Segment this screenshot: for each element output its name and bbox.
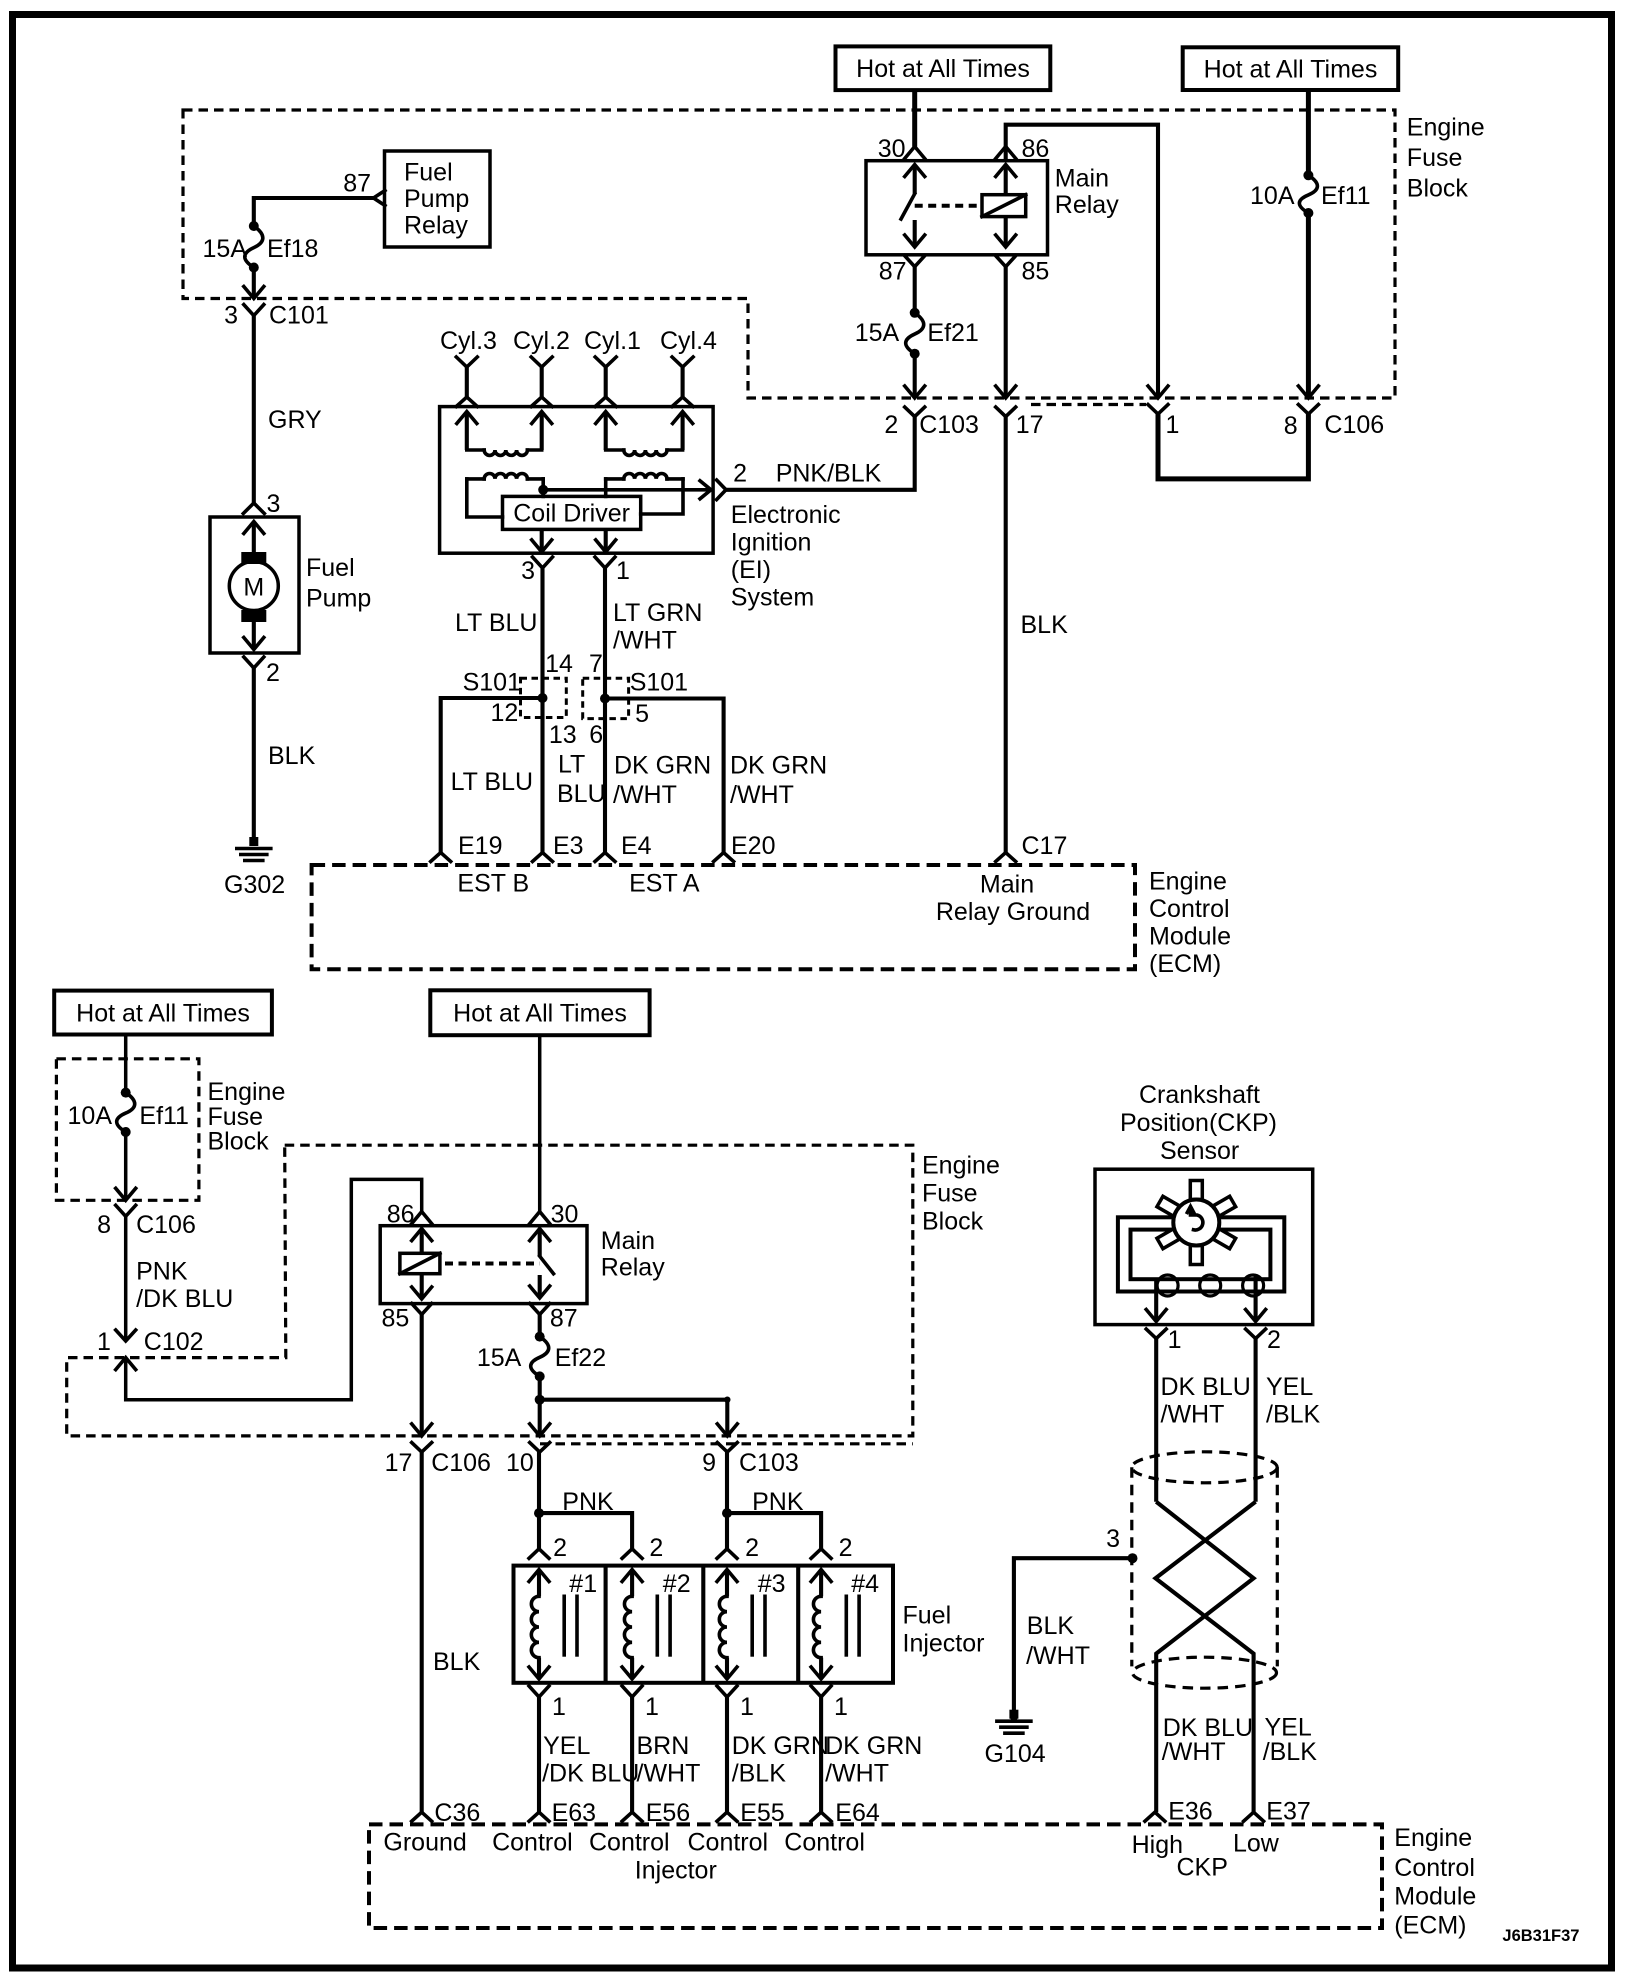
wire S101 to E4 [603,699,607,853]
wire 87 to fuse Ef21 [913,267,917,313]
svg-text:BLK: BLK [1021,611,1069,639]
svg-text:Engine: Engine [922,1152,1000,1180]
svg-text:15A: 15A [203,235,248,263]
pin 86b connector [412,1212,432,1224]
twisted pair wire A [1156,1502,1253,1812]
ECM dashed box (bottom) [369,1824,1382,1928]
svg-text:GRY: GRY [268,406,322,434]
fuse Ef22 15A [531,1337,549,1377]
svg-text:E64: E64 [835,1799,880,1827]
cyl connector at x=682.6 [672,357,693,367]
svg-text:3: 3 [224,302,238,330]
svg-text:13: 13 [549,721,577,749]
fuel pump pin 2 fork [244,657,264,668]
svg-text:(ECM): (ECM) [1394,1912,1466,1940]
svg-text:/BLK: /BLK [1263,1738,1318,1766]
svg-text:85: 85 [1022,258,1050,286]
coil secondary wire arrow x=682.6 [673,412,693,424]
svg-text:G302: G302 [224,871,285,899]
wire 10 to injector1 [537,1452,541,1549]
CKP pin 2 fork [1246,1329,1266,1339]
svg-text:YEL: YEL [1266,1373,1313,1401]
cyl connector at x=466.8 [456,357,477,367]
relay1 dashed link [915,204,982,208]
wire fuse to C101 [252,268,256,299]
relay1 coil box [982,195,1026,217]
svg-text:J6B31F37: J6B31F37 [1502,1927,1579,1945]
svg-text:/BLK: /BLK [732,1760,787,1788]
wire coil3 to S101 [540,568,544,698]
wire BLK 17 to C17 [1004,417,1008,853]
svg-text:10A: 10A [1250,182,1295,210]
fuel pump motor circle [229,562,278,611]
svg-text:System: System [731,584,814,612]
svg-text:(ECM): (ECM) [1149,950,1221,978]
svg-text:Ef11: Ef11 [139,1102,189,1130]
engine fuse block dashed box (small) [56,1059,199,1201]
svg-text:E55: E55 [740,1799,784,1827]
fuse Ef11 10A (lower) [117,1093,135,1132]
svg-text:2: 2 [553,1534,567,1562]
fuel pump brush bottom [241,610,266,622]
cyl connector at x=605.7 [595,357,616,367]
engine fuse block dashed box (lower big) [67,1145,913,1436]
svg-text:DK GRN: DK GRN [730,752,827,780]
connector C103-2 arrow [905,386,925,398]
fuse Ef18 15A [245,226,263,268]
wire BLK 17b to C36 [420,1452,424,1812]
svg-text:1: 1 [1166,411,1180,439]
svg-text:Engine: Engine [1407,114,1485,142]
wire C102 to relay2 pin86 [126,1179,422,1399]
svg-text:2: 2 [733,460,747,488]
svg-text:E19: E19 [458,832,502,860]
svg-text:S101: S101 [630,669,688,697]
junction dot coil driver feed [538,485,548,495]
svg-text:1: 1 [552,1693,566,1721]
primary winding right [606,477,624,481]
svg-text:2: 2 [649,1534,663,1562]
wire 9 to injector3 [725,1452,729,1549]
svg-text:5: 5 [635,700,649,728]
junction dot PNK left [534,1508,544,1518]
fuse Ef11 10A (top) [1299,175,1317,213]
svg-text:S101: S101 [463,669,521,697]
svg-text:Ef18: Ef18 [267,235,318,263]
fuel pump pin 3 connector [243,503,264,514]
svg-text:30: 30 [878,135,906,163]
svg-text:E3: E3 [553,832,584,860]
injector #2 internals [622,1570,642,1582]
connector C106-1 fork [1148,405,1168,415]
pin E20 [714,853,734,862]
svg-text:Electronic: Electronic [731,501,841,529]
relay2 dashed link [445,1262,540,1266]
svg-text:8: 8 [1284,412,1298,440]
primary winding left [467,477,484,481]
wire 86 up-over to C106-1 [1006,125,1158,398]
connector C101 fork [244,305,264,316]
svg-text:LT: LT [558,751,585,779]
svg-text:C106: C106 [431,1449,491,1477]
svg-text:87: 87 [879,258,907,286]
svg-text:C103: C103 [919,411,979,439]
svg-text:#1: #1 [569,1570,597,1598]
svg-text:LT GRN: LT GRN [613,599,702,627]
svg-text:Control: Control [589,1829,670,1857]
main relay box (top) [866,161,1048,255]
wire hot2 to fuse Ef11 [1306,90,1311,175]
fuel pump internal arrow down [252,622,256,650]
svg-text:87: 87 [343,170,371,198]
svg-text:/WHT: /WHT [637,1760,701,1788]
svg-text:2: 2 [1267,1326,1281,1354]
pin 30 connector [905,147,925,159]
fuel pump brush top [241,552,266,564]
branch to injector4 [727,1513,821,1549]
svg-text:Pump: Pump [404,185,469,213]
svg-text:3: 3 [521,557,535,585]
extra dashed segment near C106 pins [1031,403,1146,406]
svg-text:/DK BLU: /DK BLU [136,1285,233,1313]
connector C103-2 fork [905,407,925,417]
svg-text:E4: E4 [621,832,652,860]
extra dashed segment (lower) [540,1442,913,1445]
svg-text:1: 1 [97,1328,111,1356]
connector C103-17 arrow [996,386,1016,398]
svg-text:Engine: Engine [1149,868,1227,896]
coil secondary wire arrow x=541.7 [532,412,552,424]
wire relay87 to fuse Ef18 [254,198,374,226]
svg-text:Module: Module [1149,923,1231,951]
branch to injector2 [539,1513,632,1549]
connector C106-8b arrow [116,1188,136,1200]
svg-text:17: 17 [1016,411,1044,439]
coil secondary wire arrow x=605.7 [596,412,616,424]
svg-text:C17: C17 [1022,832,1068,860]
engine fuse block dashed box (top) [183,110,1395,398]
S101 splice box left [521,678,567,717]
injector pin 1 fork #1 [529,1686,549,1697]
svg-text:#3: #3 [758,1570,786,1598]
svg-text:E63: E63 [552,1799,596,1827]
svg-text:Relay: Relay [404,212,468,240]
svg-text:87: 87 [550,1305,578,1333]
svg-text:Crankshaft: Crankshaft [1139,1081,1260,1109]
wire junction to C103-9 [540,1400,728,1436]
wire Ef11 to C106-8 [1306,213,1311,398]
svg-text:E20: E20 [731,832,775,860]
wire fuse to C106-8b [124,1132,128,1200]
injector pin 2 connector #2 [622,1549,642,1559]
svg-text:G104: G104 [985,1740,1046,1768]
jumper loop C106 1 to 8 [1158,414,1308,479]
svg-text:/WHT: /WHT [1026,1642,1090,1670]
svg-text:Main: Main [1055,165,1109,193]
coil driver box [503,496,641,529]
injector #1 internals [529,1570,549,1582]
secondary winding right [606,448,624,452]
secondary winding left [467,448,484,452]
pin 87b fork [530,1304,550,1315]
wire Ef22 to junction [538,1376,542,1399]
svg-text:Pump: Pump [306,585,371,613]
svg-text:DK GRN: DK GRN [825,1732,922,1760]
svg-text:Relay: Relay [601,1254,665,1282]
svg-text:17: 17 [385,1449,413,1477]
svg-text:Engine: Engine [208,1078,286,1106]
relay1 coil wires [996,165,1016,177]
svg-text:Hot at All Times: Hot at All Times [1204,56,1378,84]
EI mate chevron [717,480,726,500]
hot at all times box 2 [1183,47,1399,90]
pin 87 fork [905,256,925,267]
ground G104 [1009,1710,1018,1719]
svg-text:C106: C106 [136,1211,196,1239]
connector C103-9 arrow [717,1424,737,1436]
svg-text:2: 2 [839,1534,853,1562]
wire 87b to fuse Ef22 [538,1315,542,1337]
twisted pair wire B [1156,1502,1256,1812]
svg-text:Cyl.4: Cyl.4 [660,327,717,355]
injector pin 2 connector #3 [717,1549,737,1559]
svg-text:DK GRN: DK GRN [732,1732,829,1760]
coil pin 3 fork [533,557,553,568]
connector C106-10 fork [530,1443,550,1453]
connector C106-8 arrow [1298,386,1318,398]
svg-text:Ground: Ground [383,1829,466,1857]
pin E55 [717,1812,737,1821]
fuse Ef21 15A [906,313,924,354]
svg-text:EST A: EST A [629,870,700,898]
svg-text:2: 2 [745,1534,759,1562]
svg-text:1: 1 [834,1693,848,1721]
svg-text:(EI): (EI) [731,556,771,584]
injector pin 2 connector #1 [529,1549,549,1559]
connector C102 arrow [116,1358,136,1370]
relay2 coil wires [412,1229,432,1241]
svg-text:3: 3 [267,490,281,518]
pin C36 [412,1812,432,1821]
injector pin 1 fork #2 [622,1686,642,1697]
svg-text:Fuse: Fuse [1407,144,1463,172]
svg-text:Coil Driver: Coil Driver [513,500,630,528]
wire S101 to E3 [540,698,544,853]
svg-text:Injector: Injector [903,1630,985,1658]
pin E19 [431,853,451,862]
connector C103-17 fork [996,407,1016,417]
svg-text:1: 1 [616,557,630,585]
pin E56 [622,1812,642,1821]
svg-text:Fuel: Fuel [306,554,355,582]
wire S101 to E19 [441,698,543,853]
svg-text:9: 9 [702,1449,716,1477]
svg-text:EST B: EST B [457,870,529,898]
cyl connector at x=541.7 [531,357,552,367]
coil pin 1 fork [595,557,615,568]
fuel pump box [210,517,299,653]
fuel pump relay box [385,151,491,247]
junction dot Ef22 [535,1395,545,1405]
pin 86 connector [996,147,1016,159]
pin E63 [529,1812,549,1821]
relay2 coil box [400,1253,440,1273]
wire PNK/DK BLU [124,1216,128,1341]
svg-text:LT BLU: LT BLU [451,768,533,796]
svg-text:BLK: BLK [268,742,316,770]
wire BLK to G302 [252,668,256,845]
junction dot PNK right [722,1508,732,1518]
svg-text:Ef22: Ef22 [555,1344,606,1372]
ground G302 [249,837,258,846]
svg-text:Control: Control [688,1829,769,1857]
pin E4 [595,853,615,862]
svg-text:Cyl.2: Cyl.2 [513,327,570,355]
svg-text:M: M [243,574,264,602]
svg-text:/DK BLU: /DK BLU [542,1760,639,1788]
svg-text:1: 1 [740,1693,754,1721]
connector C106-8 fork [1298,405,1318,415]
CKP inner rect [1131,1230,1271,1280]
svg-text:Control: Control [1149,895,1230,923]
svg-text:Ef11: Ef11 [1321,182,1371,210]
svg-text:Control: Control [1394,1854,1475,1882]
svg-text:3: 3 [1106,1525,1120,1553]
chevron at fuel pump relay pin 87 [374,191,386,206]
svg-text:Control: Control [784,1829,865,1857]
svg-text:Main: Main [980,871,1034,899]
svg-text:Sensor: Sensor [1160,1137,1239,1165]
svg-text:Block: Block [922,1208,984,1236]
connector C101 arrow [244,287,264,299]
wire 85b to C106-17 [420,1315,424,1436]
svg-text:Main: Main [601,1227,655,1255]
svg-text:#4: #4 [851,1570,879,1598]
relay2 switch arm [530,1229,550,1241]
svg-text:Cyl.3: Cyl.3 [440,327,497,355]
svg-text:C102: C102 [144,1328,204,1356]
pin E36 [1145,1812,1165,1821]
svg-text:/WHT: /WHT [825,1760,889,1788]
svg-text:/BLK: /BLK [1266,1401,1321,1429]
pin C17 [996,853,1016,862]
svg-text:15A: 15A [477,1344,522,1372]
svg-text:/WHT: /WHT [1161,1401,1225,1429]
svg-text:Cyl.1: Cyl.1 [584,327,641,355]
coil driver outputs [540,529,544,552]
svg-text:LT BLU: LT BLU [455,609,537,637]
svg-text:C36: C36 [434,1799,480,1827]
svg-text:10A: 10A [68,1102,113,1130]
svg-text:DK BLU: DK BLU [1161,1373,1251,1401]
svg-text:Relay Ground: Relay Ground [936,898,1090,926]
svg-text:Hot at All Times: Hot at All Times [453,1000,627,1028]
svg-text:Relay: Relay [1055,191,1119,219]
svg-text:Hot at All Times: Hot at All Times [856,55,1030,83]
connector C103-9 fork [717,1443,737,1453]
connector C106-10 arrow [530,1424,550,1436]
pin E64 [811,1812,831,1821]
svg-text:/WHT: /WHT [613,627,677,655]
svg-text:14: 14 [545,650,573,678]
junction dot S101 left [538,693,548,703]
relay1 switch arm [905,165,925,177]
CKP output wires [1154,1279,1158,1322]
svg-text:BLK: BLK [1027,1612,1075,1640]
injector #4 internals [811,1570,831,1582]
svg-text:Ef21: Ef21 [927,319,978,347]
svg-text:86: 86 [1022,135,1050,163]
svg-text:Control: Control [492,1829,573,1857]
svg-text:2: 2 [266,659,280,687]
hot at all times box 3 [54,991,272,1035]
svg-text:Block: Block [208,1128,270,1156]
svg-text:Fuse: Fuse [922,1180,978,1208]
connector C106-8b fork [116,1205,136,1216]
svg-text:Low: Low [1233,1830,1280,1858]
pin E37 [1244,1812,1264,1821]
shield drain wire [1014,1558,1133,1718]
wire Ef21 to C103 [913,354,917,398]
injector dividers [604,1566,608,1683]
shield side dashes [1130,1467,1133,1666]
svg-text:Ignition: Ignition [731,529,812,557]
svg-text:Injector: Injector [635,1857,717,1885]
svg-text:1: 1 [1168,1326,1182,1354]
wire hot1 to relay pin 30 [912,90,917,147]
svg-text:E36: E36 [1168,1798,1212,1826]
wire hot4 to relay2 pin30 [538,1035,542,1211]
connector C106-17b arrow [412,1424,432,1436]
svg-text:2: 2 [884,411,898,439]
shield bottom ellipse [1133,1657,1277,1688]
pin 30b connector [530,1212,550,1224]
EI output wire [543,488,711,492]
svg-text:YEL: YEL [543,1732,590,1760]
junction end dot [724,1397,730,1403]
ignition coil box [440,407,713,554]
svg-text:DK GRN: DK GRN [614,752,711,780]
CKP reluctor teeth [1190,1181,1202,1200]
main relay box (lower) [380,1226,587,1304]
svg-text:C106: C106 [1324,411,1384,439]
svg-text:E37: E37 [1266,1798,1310,1826]
svg-text:6: 6 [589,721,603,749]
svg-text:BLK: BLK [433,1648,481,1676]
svg-text:7: 7 [589,650,603,678]
svg-text:1: 1 [645,1693,659,1721]
svg-text:BLU: BLU [557,780,606,808]
wire junction to C106-10 [538,1400,542,1436]
hot at all times box 4 [430,990,649,1035]
junction dot S101 right [600,694,610,704]
fuel injector box [514,1566,894,1683]
pin 85 fork [996,256,1016,267]
CKP reluctor circle [1173,1200,1219,1246]
svg-text:/WHT: /WHT [1162,1738,1226,1766]
wire 85 to C103-17 [1004,267,1008,398]
svg-text:Engine: Engine [1394,1824,1472,1852]
wire coil1 to S101 [603,568,607,698]
svg-text:#2: #2 [663,1570,691,1598]
svg-text:85: 85 [381,1305,409,1333]
svg-text:Module: Module [1394,1883,1476,1911]
connector C102 fork [116,1330,136,1341]
svg-text:Block: Block [1407,174,1469,202]
wire CKP2 to shield [1254,1339,1258,1502]
CKP sensor box [1095,1169,1313,1324]
wire S101 to E20 [605,699,724,853]
